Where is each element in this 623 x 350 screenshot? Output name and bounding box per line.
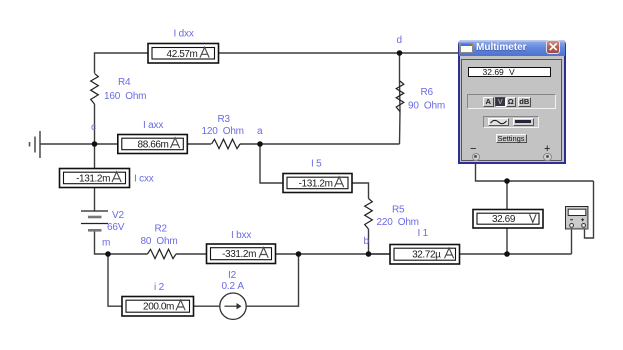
svg-text:42.57m: 42.57m <box>167 49 198 60</box>
wire I1 box to icon left pin <box>460 253 572 255</box>
node c <box>91 122 97 147</box>
svg-text:90 Ohm: 90 Ohm <box>408 101 445 112</box>
icon plus terminal <box>582 224 586 228</box>
junction voltmeter top <box>504 178 510 184</box>
resistor R5 <box>365 199 419 230</box>
wire node d to multimeter <box>400 52 460 54</box>
wire node c to R3 <box>118 143 211 145</box>
ammeter I1 <box>390 228 460 264</box>
svg-text:88.66m: 88.66m <box>138 140 169 151</box>
multimeter client frame <box>461 59 562 161</box>
ammeter i2 <box>122 282 194 316</box>
multimeter button dB <box>518 97 532 107</box>
svg-text:b: b <box>364 236 370 247</box>
svg-text:32.69: 32.69 <box>492 214 516 225</box>
wire Ibxx box to node b <box>276 253 391 255</box>
resistor R3 <box>202 114 244 149</box>
svg-text:80 Ohm: 80 Ohm <box>141 236 178 247</box>
svg-text:I2: I2 <box>228 270 237 281</box>
multimeter icon symbol <box>565 206 589 230</box>
svg-text:V2: V2 <box>112 210 124 221</box>
wire junction down through voltmeter <box>506 181 508 210</box>
icon plus mark <box>581 219 584 221</box>
wire bottom row m to R2 <box>108 253 148 255</box>
multimeter minus terminal <box>472 153 481 162</box>
ammeter I5 <box>283 158 352 192</box>
resistor R2 <box>141 224 178 259</box>
svg-text:-131.2m: -131.2m <box>299 179 333 190</box>
wire i2 box to I2 source <box>194 305 221 307</box>
svg-text:I 1: I 1 <box>418 228 429 239</box>
multimeter plus sign <box>544 143 550 155</box>
svg-text:I axx: I axx <box>143 120 163 131</box>
svg-text:120 Ohm: 120 Ohm <box>202 126 244 137</box>
svg-text:R2: R2 <box>155 224 168 235</box>
wire multimeter minus terminal down <box>476 164 594 182</box>
node b <box>364 236 372 257</box>
svg-text:m: m <box>102 238 110 249</box>
node a <box>257 126 263 147</box>
resistor R4 <box>91 73 147 104</box>
svg-text:I 5: I 5 <box>311 158 322 169</box>
svg-text:R6: R6 <box>421 87 434 98</box>
node m <box>102 238 111 257</box>
wire R3 to node a <box>240 143 260 145</box>
wire top row <box>95 53 400 73</box>
wire node a to R6 bottom <box>260 143 400 145</box>
multimeter minus sign <box>470 143 476 155</box>
svg-text:200.0m: 200.0m <box>143 302 174 313</box>
multimeter display <box>468 67 551 77</box>
wire I2 source up to bottom row <box>246 254 298 306</box>
junction bottom right of I2 loop <box>296 251 302 257</box>
wire voltmeter to bottom row <box>506 228 508 254</box>
multimeter plus terminal <box>543 153 552 162</box>
wire icon minus pin down <box>571 229 573 254</box>
svg-text:a: a <box>257 126 263 137</box>
wire I5 to R5 top <box>352 183 369 199</box>
multimeter title bar <box>458 40 566 57</box>
svg-text:I bxx: I bxx <box>231 230 251 241</box>
current source I2 <box>220 270 246 319</box>
ammeter I cxx <box>60 169 154 188</box>
ammeter I axx <box>118 120 188 154</box>
wire node a down to I5 <box>260 144 283 183</box>
ammeter I bxx <box>207 230 276 264</box>
multimeter wave group <box>483 116 539 128</box>
resistor R6 <box>396 81 445 112</box>
svg-text:R3: R3 <box>218 114 231 125</box>
multimeter body <box>458 56 566 164</box>
svg-text:i 2: i 2 <box>154 282 165 293</box>
multimeter dc button <box>513 118 534 126</box>
wire R4 bottom to battery top <box>94 104 96 211</box>
wire node m down loop <box>108 254 122 306</box>
svg-text:R5: R5 <box>392 205 405 216</box>
svg-text:I cxx: I cxx <box>134 174 154 185</box>
svg-text:32.72µ: 32.72µ <box>412 250 441 261</box>
svg-text:c: c <box>91 122 96 133</box>
ground <box>30 131 41 158</box>
multimeter mode group <box>467 94 556 109</box>
multimeter close button <box>546 40 561 54</box>
wire right vertical to icon plus pin <box>585 181 594 238</box>
svg-text:-131.2m: -131.2m <box>76 174 110 185</box>
multimeter settings button <box>496 134 527 144</box>
multimeter button V pressed <box>495 97 506 107</box>
wire R5 bottom to node b <box>368 229 370 254</box>
wire R6 leads <box>399 53 402 144</box>
svg-text:66V: 66V <box>107 222 125 233</box>
voltmeter 32.69V <box>473 210 543 229</box>
icon body <box>566 207 589 230</box>
icon display <box>568 209 586 215</box>
multimeter sine button <box>488 118 509 126</box>
ammeter I dxx <box>148 28 219 63</box>
multimeter button A <box>483 97 494 107</box>
wire ground to node c <box>40 143 118 145</box>
svg-text:0.2 A: 0.2 A <box>222 281 245 292</box>
node d <box>397 35 403 56</box>
svg-text:I dxx: I dxx <box>174 28 194 39</box>
icon minus mark <box>570 219 573 221</box>
multimeter panel XMM1 <box>458 40 566 164</box>
wire battery bottom to node m <box>95 231 109 255</box>
svg-text:160 Ohm: 160 Ohm <box>104 91 146 102</box>
svg-text:220 Ohm: 220 Ohm <box>377 217 419 228</box>
svg-text:d: d <box>397 35 402 46</box>
wire R2 to Ibxx box <box>176 253 207 255</box>
multimeter button Ohm <box>506 97 517 107</box>
svg-text:-331.2m: -331.2m <box>222 249 256 260</box>
multimeter window icon <box>460 43 473 53</box>
svg-text:R4: R4 <box>118 77 131 88</box>
multimeter title text <box>476 42 527 53</box>
junction voltmeter bottom <box>504 251 510 257</box>
battery V2 <box>81 210 125 233</box>
icon minus terminal <box>570 224 574 228</box>
wire node b to I1 box <box>369 253 391 255</box>
